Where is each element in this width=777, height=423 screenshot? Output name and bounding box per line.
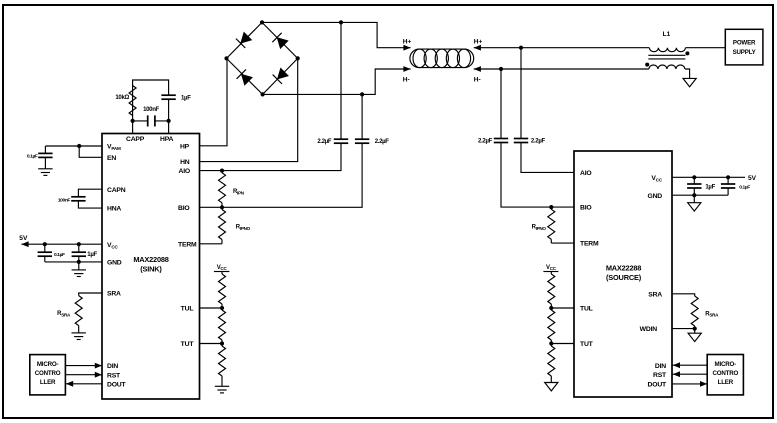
arrow H+ right bbox=[474, 38, 483, 50]
diode bridge edge top-right bbox=[262, 22, 298, 58]
diode bridge edge bottom-right bbox=[263, 58, 298, 94]
svg-text:RIPNO: RIPNO bbox=[236, 225, 251, 231]
wire H- (right rail) bbox=[474, 68, 649, 70]
svg-text:MICRO-: MICRO- bbox=[715, 361, 737, 368]
wire BIO (left) bbox=[200, 143, 363, 207]
svg-text:H-: H- bbox=[403, 76, 410, 83]
wire H+ (left rail) bbox=[262, 22, 411, 47]
capacitor 1uF (CAPP-HPA) bbox=[161, 95, 191, 121]
svg-text:SRA: SRA bbox=[648, 291, 662, 298]
resistor RIPN bbox=[219, 171, 245, 208]
wire DOUT (left) bbox=[65, 381, 102, 387]
ground (WDIN) bbox=[688, 329, 701, 342]
wire HNA bbox=[78, 201, 102, 208]
svg-text:H-: H- bbox=[474, 76, 481, 83]
capacitor 0.1uF (VCC right) bbox=[721, 177, 750, 195]
svg-text:POWER: POWER bbox=[733, 40, 756, 47]
svg-text:MAX22288: MAX22288 bbox=[606, 263, 641, 272]
svg-text:AIO: AIO bbox=[580, 170, 591, 177]
wire CAPN bbox=[78, 189, 102, 197]
wire SRA (left) bbox=[79, 293, 102, 296]
wire WDIN bbox=[672, 328, 695, 330]
capacitor 0.1uF (VPAM bypass) bbox=[27, 146, 53, 159]
svg-text:2.2µF: 2.2µF bbox=[375, 139, 390, 145]
arrow H- left bbox=[403, 66, 411, 83]
svg-text:SRA: SRA bbox=[107, 291, 121, 298]
ground (RSRA left) bbox=[72, 326, 86, 340]
svg-text:H+: H+ bbox=[474, 38, 483, 45]
wire RST (left) bbox=[65, 372, 102, 378]
junction H+ / 2.2uF cap bbox=[339, 20, 343, 24]
svg-text:DIN: DIN bbox=[107, 363, 118, 370]
svg-text:DOUT: DOUT bbox=[107, 381, 127, 388]
svg-text:SUPPLY: SUPPLY bbox=[733, 49, 757, 56]
wire HPA lead bbox=[155, 121, 168, 134]
wire TUL (right) bbox=[551, 307, 574, 309]
svg-text:TUL: TUL bbox=[181, 306, 194, 313]
microcontroller (left) bbox=[30, 355, 66, 395]
ground (L1) bbox=[683, 78, 696, 86]
resistor 10kOhm (CAPP-HPA) bbox=[115, 86, 136, 116]
arrow H+ left bbox=[403, 38, 412, 50]
ground (VPAM bypass) bbox=[38, 157, 52, 175]
svg-text:L1: L1 bbox=[663, 31, 671, 38]
node bridge left (HP) bbox=[224, 56, 228, 60]
IC U1 MAX22088 (SINK) bbox=[102, 134, 200, 400]
svg-text:VCC: VCC bbox=[217, 265, 228, 271]
svg-text:HP: HP bbox=[180, 143, 190, 150]
svg-text:2.2µF: 2.2µF bbox=[317, 139, 332, 145]
svg-text:HN: HN bbox=[180, 159, 190, 166]
junction VPAM/EN bbox=[77, 144, 81, 148]
svg-text:10kΩ: 10kΩ bbox=[115, 95, 129, 101]
svg-text:0.1µF: 0.1µF bbox=[54, 252, 65, 258]
capacitor 1uF (VCC left) bbox=[72, 244, 98, 262]
resistor RIPNO (right) bbox=[532, 207, 555, 243]
power supply bbox=[725, 29, 763, 65]
svg-text:TUL: TUL bbox=[580, 306, 593, 313]
svg-text:BIO: BIO bbox=[580, 205, 591, 212]
wire H+ (right rail) bbox=[474, 47, 650, 49]
wire CAPP to resistor top bbox=[132, 86, 134, 121]
wire GND (left) bbox=[45, 261, 102, 263]
svg-text:CAPP: CAPP bbox=[126, 136, 145, 143]
svg-text:MAX22088: MAX22088 bbox=[133, 255, 168, 264]
svg-text:100nF: 100nF bbox=[143, 107, 159, 113]
junction GND bbox=[77, 260, 81, 264]
wire GND (right) bbox=[672, 194, 728, 196]
arrow H- right bbox=[474, 66, 481, 83]
wire DIN (right) bbox=[672, 362, 707, 368]
svg-text:TUT: TUT bbox=[181, 341, 195, 348]
wire HN bbox=[200, 58, 298, 161]
capacitor 2.2uF (right BIO coupling) bbox=[478, 69, 508, 145]
wire TUL (left) bbox=[200, 307, 223, 309]
svg-text:WDIN: WDIN bbox=[640, 326, 658, 333]
junction H- / 2.2uF cap bbox=[360, 92, 364, 96]
IC U2 MAX22288 (SOURCE) bbox=[574, 151, 672, 397]
wire CAPP lead bbox=[133, 121, 148, 134]
svg-text:2.2µF: 2.2µF bbox=[478, 139, 493, 145]
wire TERM (right) bbox=[551, 242, 574, 244]
svg-text:0.1µF: 0.1µF bbox=[739, 185, 750, 191]
svg-text:GND: GND bbox=[107, 260, 122, 267]
junction TUL (left) bbox=[220, 306, 224, 310]
node 5V (right) bbox=[748, 175, 757, 182]
junction AIO/RIPN bbox=[220, 169, 224, 173]
junction H- / right 2.2uF bbox=[499, 67, 503, 71]
svg-text:CAPN: CAPN bbox=[107, 187, 126, 194]
capacitor 100nF (CAPN-HNA) bbox=[58, 197, 86, 204]
resistor RIPNO (left) bbox=[219, 207, 251, 244]
node VCC (left divider) bbox=[214, 265, 230, 272]
svg-text:DIN: DIN bbox=[655, 363, 666, 370]
ground (right divider) bbox=[545, 383, 558, 391]
junction WDIN/RSRA bbox=[693, 327, 697, 331]
junction VCC cap2 bbox=[77, 242, 81, 246]
wire VCC (right) bbox=[672, 176, 745, 178]
svg-text:MICRO-: MICRO- bbox=[37, 361, 59, 368]
wire DOUT (right) bbox=[672, 381, 707, 387]
svg-text:2.2µF: 2.2µF bbox=[531, 139, 546, 145]
junction HPA node bbox=[167, 119, 171, 123]
junction TUL (right) bbox=[549, 306, 553, 310]
capacitor 0.1uF (VCC left) bbox=[38, 244, 65, 262]
svg-text:RSRA: RSRA bbox=[57, 311, 71, 317]
ground (left divider) bbox=[215, 386, 229, 393]
junction TUT (left) bbox=[220, 341, 224, 345]
diode D1 (top-left) bbox=[236, 31, 253, 48]
wire L1 secondary to ground bbox=[685, 69, 690, 78]
svg-text:TERM: TERM bbox=[580, 241, 599, 248]
transformer L1 bbox=[645, 31, 689, 69]
node bridge right (HN) bbox=[296, 56, 300, 60]
diode D4 (bottom-right) bbox=[272, 67, 289, 84]
wire HP bbox=[200, 58, 228, 145]
wire EN bbox=[79, 146, 102, 157]
svg-text:RSRA: RSRA bbox=[705, 311, 719, 317]
resistor divider R1 (right) bbox=[548, 272, 555, 309]
svg-text:CONTRO: CONTRO bbox=[35, 370, 61, 377]
wire RST (right) bbox=[672, 371, 707, 377]
svg-text:AIO: AIO bbox=[179, 168, 190, 175]
wire VPAM bbox=[45, 145, 102, 147]
resistor RSRA (left) bbox=[57, 296, 82, 326]
capacitor 100nF (CAPP-HPA) bbox=[143, 107, 159, 127]
junction GND (right) bbox=[692, 193, 696, 197]
svg-text:5V: 5V bbox=[19, 235, 28, 242]
junction VCC cap2 (right) bbox=[726, 175, 730, 179]
svg-text:RST: RST bbox=[107, 372, 121, 379]
svg-text:RIPN: RIPN bbox=[233, 189, 245, 195]
svg-text:RST: RST bbox=[653, 372, 667, 379]
resistor divider R3 (left) bbox=[219, 344, 226, 387]
junction BIO/RIPNO bbox=[220, 205, 224, 209]
capacitor 2.2uF (left BIO coupling) bbox=[355, 94, 389, 145]
svg-text:1µF: 1µF bbox=[705, 185, 715, 191]
node bridge top (H+) bbox=[260, 20, 264, 24]
junction VCC cap1 (right) bbox=[692, 175, 696, 179]
capacitor 2.2uF (right AIO coupling) bbox=[514, 48, 546, 145]
junction TUT (right) bbox=[549, 341, 553, 345]
cable coil bbox=[410, 49, 474, 68]
svg-text:100nF: 100nF bbox=[58, 197, 71, 203]
junction BIO/RIPNO (right) bbox=[549, 205, 553, 209]
svg-text:TERM: TERM bbox=[178, 241, 197, 248]
svg-text:EN: EN bbox=[107, 155, 116, 162]
wire VCC (left) bbox=[21, 243, 102, 245]
svg-text:1µF: 1µF bbox=[181, 96, 191, 102]
diode D2 (top-right) bbox=[272, 32, 289, 49]
resistor divider R3 (right) bbox=[548, 344, 555, 383]
wire DIN (left) bbox=[65, 363, 102, 369]
svg-text:5V: 5V bbox=[748, 175, 757, 182]
wire TUT (left) bbox=[200, 343, 223, 345]
diode bridge edge top-left bbox=[227, 22, 263, 58]
wire AIO (left) bbox=[200, 143, 342, 171]
resistor divider R2 (left) bbox=[219, 308, 226, 344]
wire TUT (right) bbox=[551, 343, 574, 345]
wire SRA (right) bbox=[672, 294, 695, 296]
node bridge bottom (H-) bbox=[261, 92, 265, 96]
svg-text:GND: GND bbox=[647, 193, 662, 200]
svg-text:(SOURCE): (SOURCE) bbox=[606, 273, 642, 282]
junction VCC cap1 bbox=[43, 242, 47, 246]
capacitor 1uF (VCC right) bbox=[687, 177, 715, 195]
wire BIO (right) bbox=[501, 143, 574, 208]
svg-text:(SINK): (SINK) bbox=[140, 265, 162, 274]
junction H+ / right 2.2uF bbox=[519, 46, 523, 50]
microcontroller (right) bbox=[707, 355, 743, 395]
svg-text:CONTRO: CONTRO bbox=[712, 370, 738, 377]
svg-text:RIPNO: RIPNO bbox=[532, 225, 547, 231]
wire H- (left rail) bbox=[263, 69, 411, 94]
node 5V (left) bbox=[19, 235, 28, 247]
svg-text:BIO: BIO bbox=[178, 205, 189, 212]
diode bridge edge bottom-left bbox=[227, 58, 263, 94]
resistor divider R2 (right) bbox=[548, 308, 555, 344]
svg-text:LLER: LLER bbox=[718, 379, 734, 386]
svg-text:0.1µF: 0.1µF bbox=[27, 153, 38, 159]
ground (left VCC) bbox=[72, 262, 86, 277]
svg-text:DOUT: DOUT bbox=[648, 382, 668, 389]
svg-text:1µF: 1µF bbox=[87, 252, 97, 258]
resistor RSRA (right) bbox=[691, 296, 719, 329]
wire top RC rail bbox=[133, 80, 169, 95]
node VCC (right divider) bbox=[543, 265, 558, 272]
ground (right VCC) bbox=[688, 195, 701, 211]
wire L1 to power supply bbox=[685, 47, 725, 49]
junction CAPP node bbox=[131, 119, 135, 123]
capacitor 2.2uF (left AIO coupling) bbox=[317, 22, 348, 145]
wire AIO (right) bbox=[521, 143, 574, 173]
resistor divider R1 (left) bbox=[219, 272, 226, 309]
svg-text:HNA: HNA bbox=[107, 206, 121, 213]
svg-text:VCC: VCC bbox=[546, 265, 557, 271]
svg-text:TUT: TUT bbox=[580, 341, 594, 348]
diode D3 (bottom-left) bbox=[236, 69, 253, 86]
svg-text:LLER: LLER bbox=[40, 379, 56, 386]
wire TERM (left) bbox=[200, 243, 223, 245]
svg-text:HPA: HPA bbox=[160, 136, 174, 143]
svg-text:H+: H+ bbox=[403, 38, 412, 45]
